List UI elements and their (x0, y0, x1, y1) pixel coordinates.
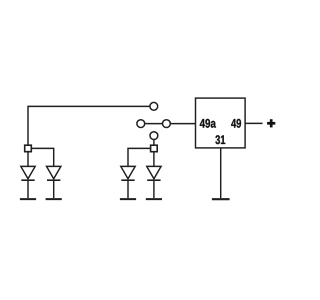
flasher relay U1 (terminals 49, 49a, 31) (196, 98, 246, 148)
wire: S4 down to junction J2 (153, 140, 155, 145)
switch contact S2 (137, 120, 145, 128)
wire: J1 down to diode D1 (27, 152, 29, 167)
wire: S3 to relay terminal 49a (171, 123, 196, 125)
diode D1 (left indicator lamp 1) (21, 166, 35, 180)
wire: D4 cathode to terminal bar (153, 180, 155, 198)
wire: J1 branch to diode D2 (31, 148, 53, 166)
wire: bridge between S2 and S3 (145, 123, 162, 125)
junction J1 (terminal block, left group) (25, 145, 32, 152)
terminal label 31 (215, 135, 225, 144)
diode D2 (left indicator lamp 2) (47, 166, 61, 180)
diode D4 (right indicator lamp 2) (147, 166, 161, 180)
wire: D3 cathode to terminal bar (127, 180, 129, 198)
terminal bar of D2 (46, 198, 62, 200)
wire: J2 branch to diode D3 (128, 148, 151, 166)
wire: relay terminal 31 to ground (220, 148, 222, 198)
terminal bar of D4 (146, 198, 162, 200)
wire: J2 down to diode D4 (153, 152, 155, 167)
switch contact S1 (feed to left indicator group) (150, 102, 158, 110)
switch contact S3 (feed from relay terminal 49a) (163, 120, 171, 128)
battery positive (+) symbol (267, 119, 275, 127)
junction J2 (terminal block, right group) (151, 145, 158, 152)
switch contact S4 (feed to right indicator group) (150, 132, 158, 140)
ground (212, 198, 230, 200)
wire: relay terminal 49 to battery positive (245, 122, 263, 124)
wire: D1 cathode to terminal bar (27, 180, 29, 198)
terminal label 49a (200, 119, 216, 128)
diode D3 (right indicator lamp 1) (121, 166, 135, 180)
wire: D2 cathode to terminal bar (53, 180, 55, 198)
terminal bar of D1 (20, 198, 36, 200)
wire: bus from junction J1 up and across to switch contact S1 (28, 106, 150, 145)
terminal label 49 (231, 119, 241, 128)
terminal bar of D3 (120, 198, 136, 200)
